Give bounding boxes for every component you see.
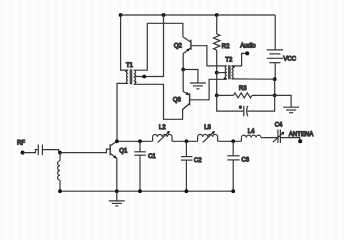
wire R3 right node to right ground [275,95,291,107]
wire top VCC rail [121,14,276,16]
wire emitter node to ground [183,70,198,84]
ground bottom [109,201,125,206]
capacitor electrolytic (*) parallel with R3 [217,95,275,116]
node center tap dot [142,75,146,79]
wire T2 right-bottom to battery minus [232,78,275,80]
node C1 tap [138,139,142,143]
node bottom Q1 emitter [115,189,119,193]
wire rail L3 to C3 tap [218,140,242,142]
wire T1 left-bottom to Q1 collector node [117,83,128,141]
ground center [190,83,206,89]
transistor Q1 [110,141,128,191]
transformer T1 [125,63,136,84]
terminal Audio [245,51,249,55]
inductor RF shunt [58,153,60,192]
wire main tank rail [117,140,153,142]
transistor Q2 [174,37,191,70]
terminal ANTENA [298,139,302,143]
svg-text:R2: R2 [222,44,230,50]
svg-text:C1: C1 [148,154,156,160]
capacitor C3 [227,141,249,191]
node R3 right [273,94,277,98]
node top rail left [119,13,123,17]
wire Q3 base to T2 left-bottom [190,79,227,100]
battery VCC [267,50,297,63]
svg-text:Q2: Q2 [174,43,183,49]
node R2 / T2 center tap [215,71,219,75]
node emitter junction Q2/Q3/ground [181,68,185,72]
capacitor C4 variable [273,123,285,143]
wire battery minus down to R3 right node [274,79,276,95]
capacitor RF coupling [38,145,42,156]
svg-text:L2: L2 [159,125,166,131]
svg-text:ANTENA: ANTENA [289,132,313,138]
node top rail R2 tap [215,13,219,17]
svg-text:Q1: Q1 [119,149,128,155]
svg-text:C3: C3 [241,158,249,164]
inductor L2 [153,125,172,143]
wire T1 right-top to Q2 collector [134,23,183,70]
node top rail T1 tap [162,13,166,17]
svg-text:T1: T1 [126,63,134,69]
svg-text:T2: T2 [225,58,233,64]
wire T1 center tap to rail [134,15,164,77]
wire cap to RF node [42,150,58,153]
wire T2 center tap [217,72,227,74]
wire T1 left-top to rail [121,15,129,70]
ground right [283,107,299,113]
resistor R3 [217,86,275,98]
node C2 tap [185,139,189,143]
wire bottom ground rail [60,190,233,192]
wire battery to minus node [274,63,276,79]
wire L4 to C4 [261,137,278,139]
node C3 tap [231,139,235,143]
wire Q2 base to T2 left-top [191,46,227,66]
inductor L4 [241,129,261,141]
transistor Q3 [173,70,190,110]
wire rail L2 to C2 [172,140,198,142]
node bottom L1 [58,189,62,193]
node Q1 collector [115,139,119,143]
svg-text:Q3: Q3 [173,97,182,103]
wire T2 right-top to Audio terminal [232,53,246,66]
svg-text:R3: R3 [239,86,247,92]
wire battery riser [274,15,276,50]
svg-text:C2: C2 [194,158,202,164]
wire C4 to antenna terminal [280,138,299,142]
svg-text:Audio: Audio [240,43,256,49]
svg-text:VCC: VCC [283,56,296,62]
wire RF to coupling cap [23,150,39,153]
wire bottom rail to ground [116,191,118,201]
transformer T2 [224,58,235,80]
svg-text:C4: C4 [275,123,283,129]
capacitor C1 [134,141,156,191]
node R3 left / Q3 base net [215,94,219,98]
node battery minus [273,77,277,81]
wire RF node to Q1 gate [60,149,110,153]
node bottom C2 [185,189,189,193]
svg-text:RF: RF [17,141,25,147]
node bottom C3 [231,189,235,193]
node RF input [58,151,62,155]
wire T1 right-bottom to Q3 collector [134,84,190,119]
terminal RF [21,151,25,155]
wire R2 node down to R3 node [216,73,218,96]
svg-text:L4: L4 [248,129,255,135]
inductor L3 [198,125,218,143]
resistor R2 [214,15,231,73]
svg-text:L3: L3 [204,125,211,131]
node bottom C1 [138,189,142,193]
capacitor C2 [181,141,202,191]
